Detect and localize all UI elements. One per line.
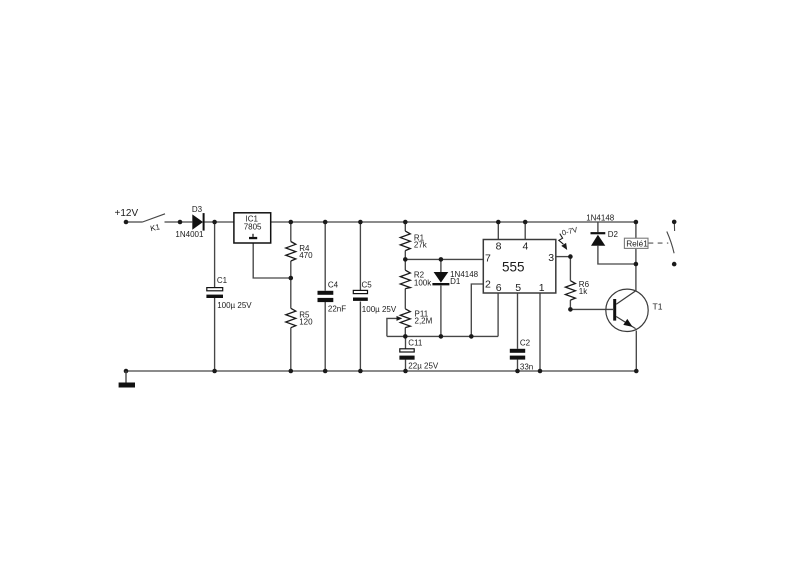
relay contact switch <box>667 224 675 253</box>
node rail relay <box>634 220 639 225</box>
svg-text:1N4148: 1N4148 <box>586 214 615 223</box>
wire relay coil bottom <box>635 249 637 264</box>
wire R6 to T1 base <box>570 308 613 310</box>
node D1 cathode mid <box>439 334 444 339</box>
wire R5 column <box>290 278 292 308</box>
svg-text:27k: 27k <box>414 241 428 250</box>
svg-text:470: 470 <box>299 251 313 260</box>
svg-text:100k: 100k <box>414 279 432 288</box>
wire D2 bottom L <box>598 246 636 264</box>
svg-text:1k: 1k <box>579 287 588 296</box>
relay coil Rel&#233;1 <box>624 238 668 249</box>
node R6 base <box>568 307 573 312</box>
wire IC1 ground to R4/R5 junction <box>253 243 291 278</box>
svg-text:1N4001: 1N4001 <box>175 230 204 239</box>
wire pin2 branch <box>471 284 483 336</box>
svg-text:22µ 25V: 22µ 25V <box>408 362 439 371</box>
node rail C2 <box>515 369 520 374</box>
svg-text:C11: C11 <box>408 338 423 347</box>
resistor R5 <box>286 308 313 327</box>
diode D3 1N4001 <box>175 205 204 239</box>
wire D1 column <box>440 259 442 272</box>
wire pin5 to C2 <box>517 293 519 349</box>
svg-text:2: 2 <box>485 279 491 291</box>
transistor T1 <box>606 289 663 331</box>
svg-text:Relé1: Relé1 <box>626 239 648 249</box>
IC 555 U1 <box>483 240 556 295</box>
node rail C1 <box>212 369 217 374</box>
node D3 cathode / C1 <box>212 220 217 225</box>
node pin3 R6 <box>568 254 573 259</box>
wire C5 column <box>359 222 361 290</box>
potentiometer P11 <box>397 309 433 328</box>
wire T1 emitter to rail <box>635 331 637 371</box>
wire diode to IC1 <box>205 221 234 223</box>
svg-text:555: 555 <box>502 259 525 274</box>
wire C11 column <box>405 336 407 348</box>
wire mid node line <box>387 335 498 337</box>
node rail R1 <box>403 220 408 225</box>
capacitor C1 <box>206 276 252 310</box>
svg-text:120: 120 <box>299 318 313 327</box>
wire R6 column <box>569 257 571 281</box>
resistor R6 <box>565 280 589 300</box>
node rail C11 <box>403 369 408 374</box>
diode D1 1N4148 <box>432 270 478 286</box>
svg-text:5: 5 <box>515 282 521 294</box>
node rail emitter <box>634 369 639 374</box>
node relay contact top <box>672 220 677 225</box>
wire switch to diode <box>165 221 193 223</box>
wire relay coil top <box>635 222 637 239</box>
node rail C5 <box>358 220 363 225</box>
diode D2 1N4148 <box>586 214 618 246</box>
node rail pin1 <box>538 369 543 374</box>
svg-text:C4: C4 <box>328 281 339 290</box>
svg-text:C1: C1 <box>217 276 228 285</box>
svg-text:100µ 25V: 100µ 25V <box>362 305 397 314</box>
wire T1 collector <box>635 264 637 290</box>
node rail pin8 <box>496 220 501 225</box>
wire R1 column <box>404 222 406 231</box>
svg-text:D1: D1 <box>450 277 461 286</box>
wire C1 column <box>214 222 216 288</box>
wire top rail left segment <box>126 221 143 223</box>
resistor R4 <box>286 242 313 262</box>
switch K1 <box>143 214 166 233</box>
wire pin7 line <box>405 258 483 260</box>
svg-text:33n: 33n <box>520 362 533 371</box>
regulator IC1 7805 <box>234 213 271 243</box>
node pin2 mid <box>469 334 474 339</box>
svg-text:T1: T1 <box>653 301 663 311</box>
wire bottom rail <box>126 370 636 372</box>
ground symbol <box>119 371 135 388</box>
node D2 relay collector <box>634 262 639 267</box>
svg-text:1: 1 <box>539 282 545 294</box>
capacitor C2 <box>510 338 533 371</box>
probe 0-7V <box>559 225 579 250</box>
wire P11 bottom <box>404 328 406 337</box>
resistor R2 <box>400 270 432 288</box>
node K1 to D3 <box>178 220 183 225</box>
svg-text:100µ 25V: 100µ 25V <box>217 301 252 310</box>
node IC1 gnd R4 R5 <box>289 276 294 281</box>
svg-text:8: 8 <box>496 240 502 252</box>
wire P11 wiper return <box>387 318 399 336</box>
svg-text:22nF: 22nF <box>328 305 346 314</box>
node rail C5 bottom <box>358 369 363 374</box>
svg-text:7805: 7805 <box>244 223 262 232</box>
node rail R5 <box>289 369 294 374</box>
wire C4 column <box>324 222 326 291</box>
wire pin6 vertical <box>497 293 499 336</box>
wire pin3 to node <box>556 256 571 258</box>
svg-text:C2: C2 <box>520 338 531 347</box>
node rail pin4 <box>523 220 528 225</box>
capacitor C5 <box>353 281 397 315</box>
resistor R1 <box>400 231 427 251</box>
node rail R4 <box>289 220 294 225</box>
node rail C4 bottom <box>323 369 328 374</box>
wire pin8 vertical <box>497 222 499 240</box>
node +12V terminal <box>124 220 129 225</box>
wire top rail main <box>271 221 636 223</box>
node P11 C11 <box>403 334 408 339</box>
wire R2 column <box>404 259 406 270</box>
svg-text:C5: C5 <box>362 281 373 290</box>
svg-text:2,2M: 2,2M <box>415 317 433 326</box>
node rail C4 <box>323 220 328 225</box>
wire pin4 vertical <box>524 222 526 240</box>
svg-text:3: 3 <box>548 252 554 264</box>
node relay contact bottom <box>672 262 677 267</box>
svg-text:D2: D2 <box>608 230 619 239</box>
wire D2 top <box>597 222 599 232</box>
node D1 anode <box>439 257 444 262</box>
svg-text:D3: D3 <box>192 205 203 214</box>
svg-text:+12V: +12V <box>115 208 139 219</box>
wire R4 column <box>290 222 292 242</box>
node R1 R2 pin7 <box>403 257 408 262</box>
node gnd rail left <box>124 369 129 374</box>
svg-text:4: 4 <box>523 240 529 252</box>
capacitor C11 <box>399 338 439 370</box>
svg-text:6: 6 <box>496 282 502 294</box>
wire pin1 vertical <box>539 293 541 371</box>
capacitor C4 <box>318 281 347 314</box>
svg-text:7: 7 <box>485 253 491 265</box>
